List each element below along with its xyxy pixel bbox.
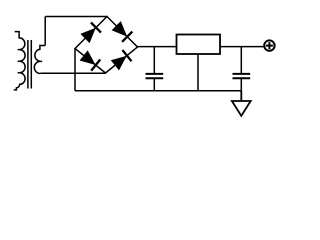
capacitor C1 leads bbox=[153, 47, 155, 91]
diode D2 (bridge top-right) bbox=[112, 21, 133, 42]
capacitor C2 leads bbox=[240, 47, 242, 101]
transformer T1 primary winding bbox=[14, 32, 25, 90]
diode D1 (bridge top-left) bbox=[80, 23, 101, 44]
diode D4 (bridge bottom-right) bbox=[111, 50, 132, 70]
transformer T1 secondary winding bbox=[34, 46, 45, 74]
capacitor C1 plates bbox=[146, 74, 164, 78]
voltage regulator U1 bbox=[177, 35, 221, 55]
wire bridge positive corner to regulator input bbox=[138, 46, 177, 48]
wire top rail to bridge AC top corner bbox=[45, 16, 107, 18]
wire secondary top lead up to top rail bbox=[44, 17, 46, 46]
bridge rectifier diamond bbox=[75, 17, 138, 74]
wire regulator ground pin bbox=[197, 54, 199, 91]
wire bridge negative corner down to ground rail bbox=[74, 49, 76, 91]
wire regulator output to terminal bbox=[220, 46, 265, 48]
ground bbox=[232, 91, 251, 116]
capacitor C2 plates bbox=[233, 74, 251, 78]
wire secondary bottom lead to bridge AC bottom corner bbox=[40, 72, 105, 74]
diode D3 (bridge bottom-left) bbox=[80, 50, 101, 70]
output terminal (+) bbox=[264, 40, 274, 50]
wire bottom ground rail bbox=[75, 90, 241, 92]
transformer T1 core bbox=[28, 40, 31, 89]
